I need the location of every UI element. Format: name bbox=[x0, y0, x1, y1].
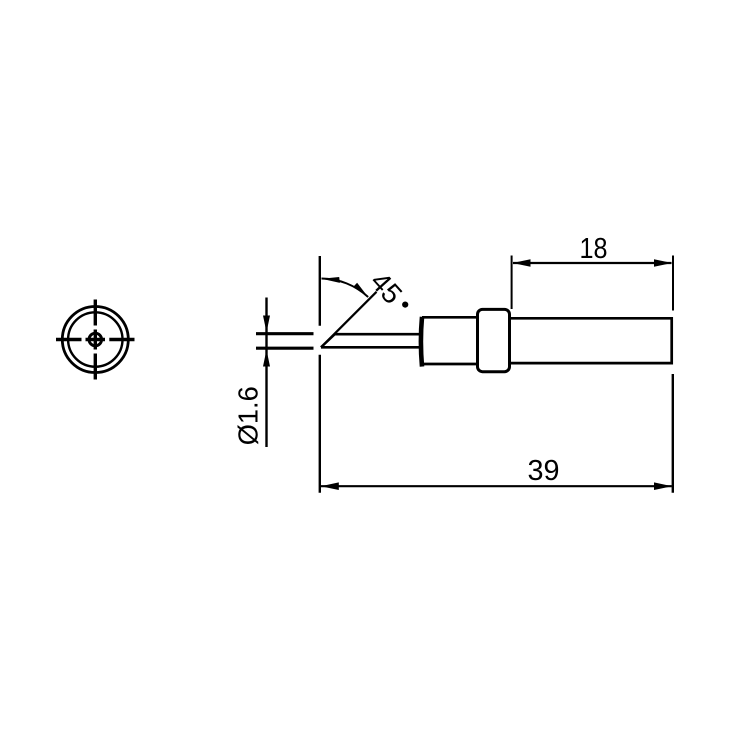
svg-text:Ø1.6: Ø1.6 bbox=[233, 386, 264, 445]
svg-text:39: 39 bbox=[528, 455, 560, 487]
svg-text:18: 18 bbox=[580, 233, 608, 265]
